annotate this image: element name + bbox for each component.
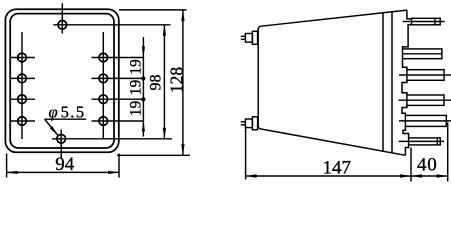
- hole R4: [92, 117, 144, 126]
- hole L2: [11, 74, 36, 83]
- side view rear vertical 1: [382, 13, 384, 151]
- svg-text:φ5.5: φ5.5: [49, 102, 86, 121]
- svg-text:19: 19: [128, 80, 145, 96]
- hole L4: [11, 117, 36, 126]
- side view body left face: [257, 28, 259, 127]
- phi 5.5 label and leader: [45, 119, 87, 136]
- mounting screw bottom-left: [241, 117, 258, 130]
- hole R2: [92, 74, 144, 83]
- svg-text:147: 147: [323, 157, 352, 178]
- hole R3: [92, 95, 144, 104]
- side view terminal comb profile: [402, 10, 412, 155]
- dimension 128 line: [117, 10, 190, 155]
- svg-text:19: 19: [128, 59, 145, 75]
- svg-text:128: 128: [167, 67, 187, 94]
- pin row 6 bottom stud: [399, 138, 444, 145]
- side view body bottom edge: [258, 126, 405, 156]
- pin row 5 blade: [399, 115, 451, 126]
- relay front view inner case: [10, 14, 114, 148]
- svg-text:94: 94: [55, 154, 74, 175]
- svg-text:19: 19: [128, 101, 145, 117]
- mounting screw top-left: [241, 31, 258, 44]
- pin row 4 blade: [399, 95, 451, 105]
- svg-text:40: 40: [417, 155, 438, 176]
- right hole column center line: [102, 32, 104, 139]
- pin row 3 blade: [399, 70, 451, 81]
- left hole column center line: [21, 32, 23, 139]
- pin row 2 blade: [403, 49, 442, 59]
- hole R1: [92, 53, 144, 62]
- hole L3: [11, 95, 36, 104]
- dimension chain 19x3 line: [141, 37, 145, 137]
- hole L1: [11, 53, 36, 62]
- side view rear vertical 2: [391, 12, 393, 153]
- dimension 94 bottom: [7, 154, 119, 178]
- side view body top edge: [258, 10, 407, 29]
- svg-text:98: 98: [148, 75, 165, 91]
- hole top-center: [53, 3, 170, 33]
- dimension 147 and 40 bottom: [246, 123, 448, 182]
- dimension 98 line: [163, 25, 166, 139]
- relay front view outer case: [5, 9, 118, 152]
- pin row 1 top stud: [403, 18, 445, 25]
- hole bottom-center: [52, 130, 172, 158]
